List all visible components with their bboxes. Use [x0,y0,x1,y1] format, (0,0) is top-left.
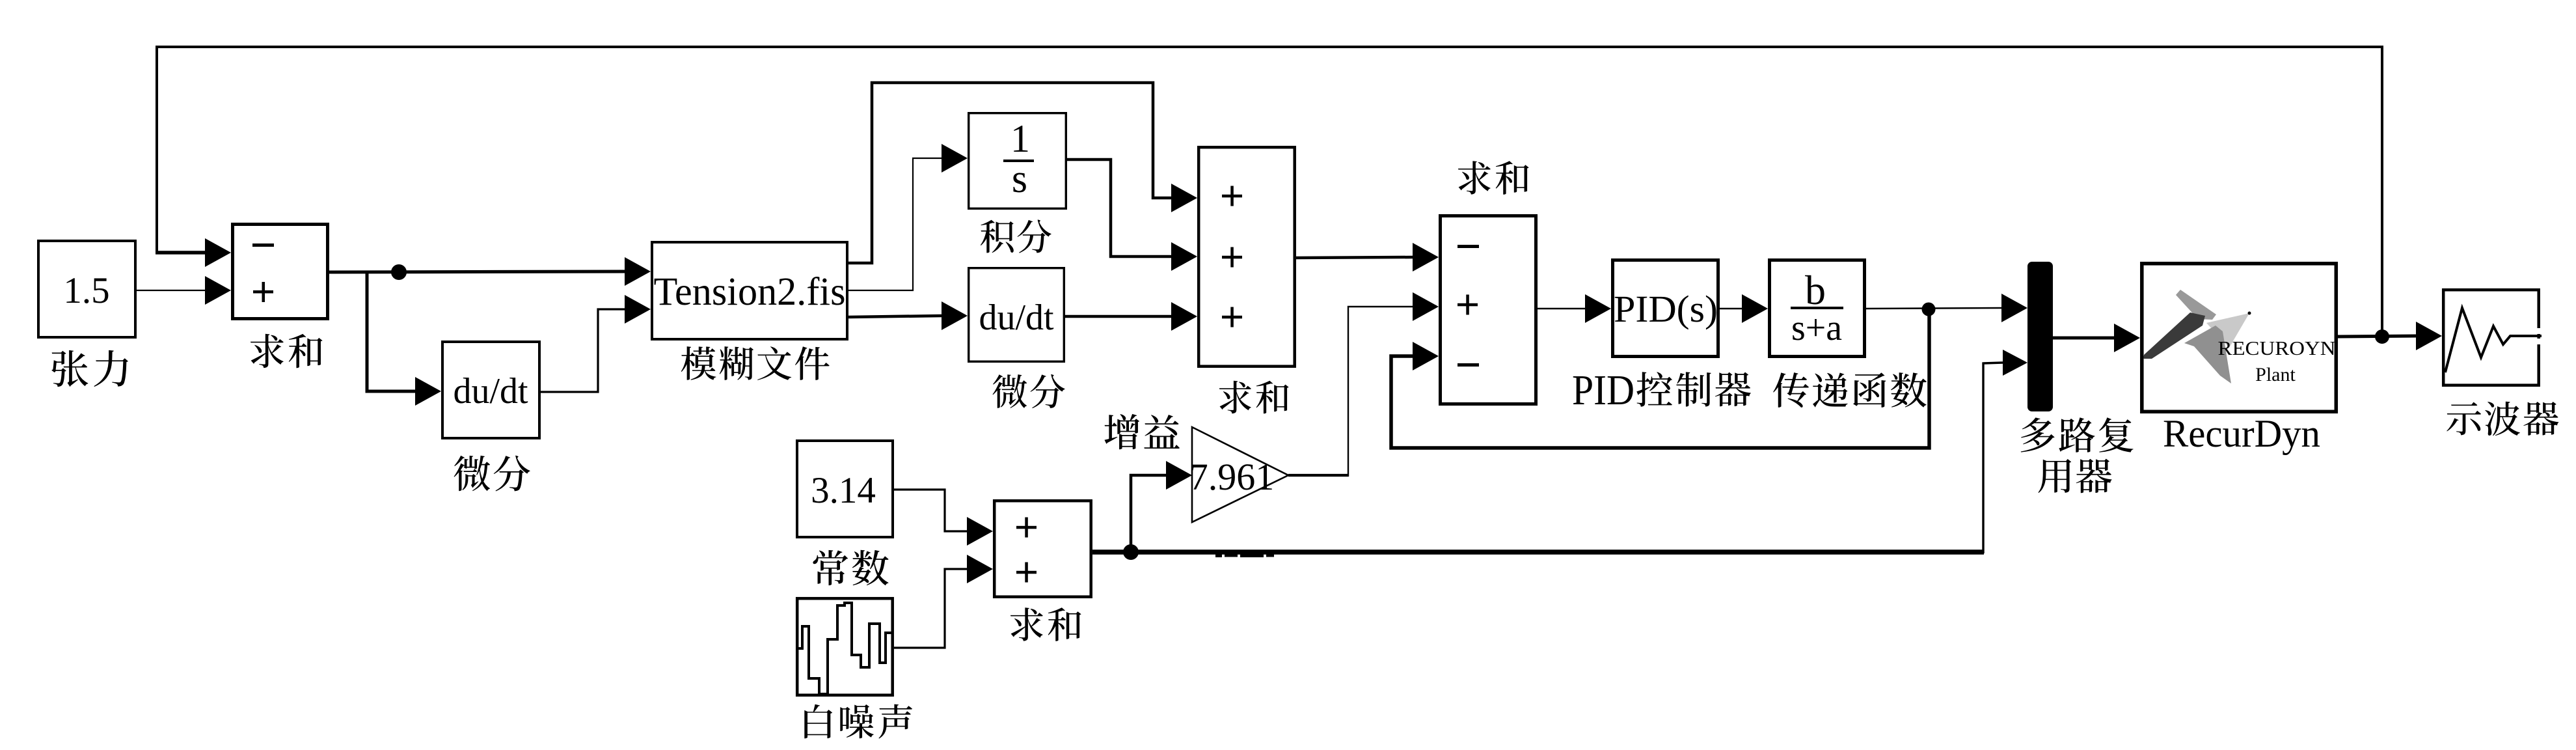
wire feedback from transfer-function output to sum3 minus input [1391,309,1929,448]
block gain 7.961 (triangle) [1192,427,1288,522]
wire mux output to RecurDyn plant [2053,337,2114,340]
svg-text:s+a: s+a [1791,308,1842,348]
wire gain output up to sum3 plus input [1348,307,1413,477]
wire Tension2.fis output to integrator 1/s [848,158,942,290]
sum4 plus signs [1016,518,1037,538]
sum1 minus sign [252,243,274,247]
svg-text:7.961: 7.961 [1189,456,1275,498]
block RecurDyn plant [2142,264,2337,412]
svg-text:PID: PID [1572,367,1634,414]
block sum2 (+++) [1199,147,1295,367]
label Qiu He (sum) under sum2 [1219,381,1289,414]
svg-text:1: 1 [1010,117,1030,160]
block sum3 (-+-) [1441,216,1536,404]
svg-text:du/dt: du/dt [453,371,528,411]
junction sum4 output [1123,544,1139,560]
sum3 minus sign bottom [1457,363,1479,367]
block mux (multiplexer bar) [2027,262,2053,411]
svg-text:RECUROYN: RECUROYN [2218,337,2336,359]
block PID controller [1613,260,1718,357]
sum1 plus sign [253,282,273,302]
fraction bar b/(s+a) [1791,307,1843,309]
label Zhang Li (tension) [51,350,128,387]
wire transfer function output to mux input1 [1866,308,2001,309]
white noise waveform [797,603,892,694]
wire gain 7.961 output (horizontal) [1288,474,1348,477]
junction transfer function output [1922,303,1936,316]
wire feedback top rail from output junction [157,47,2382,336]
block integrator 1/s [969,113,1066,209]
wire sum2 output to sum3 minus input [1296,257,1413,258]
sum2 plus signs [1222,186,1242,206]
wire sum3 output to PID(s) [1538,308,1585,309]
wire du/dt2 output to sum2 input3 [1065,315,1171,318]
block scope (oscilloscope) [2443,290,2539,385]
svg-text:s: s [1012,157,1027,201]
label Shi Bo Qi (oscilloscope) [2447,402,2558,436]
wire sum1 output to Tension2.fis input1 [329,271,625,272]
label Qiu He (sum) above sum3 [1458,161,1529,195]
label Yong Qi (mux line2) [2038,459,2111,493]
wire top rail into sum1 minus input [156,251,205,254]
sum3 plus sign [1457,295,1478,315]
svg-text:Tension2.fis: Tension2.fis [654,270,846,314]
block fuzzy controller Tension2.fis [652,242,847,339]
label Kong Zhi Qi (controller) [1636,372,1751,406]
label Ji Fen (integral) [981,219,1051,253]
wire white noise to sum4 input2 [894,569,967,648]
svg-text:3.14: 3.14 [811,470,876,511]
label Wei Fen (derivative) 2 [992,374,1064,408]
wire branch sum1 output to du/dt1 [367,272,415,391]
label Zeng Yi (gain) [1104,414,1179,449]
svg-text:du/dt: du/dt [979,298,1054,338]
label Mo Hu Wen Jian (fuzzy file) [681,346,830,380]
block band-limited white noise [797,598,893,695]
label Wei Fen (derivative) 1 [454,456,530,492]
wire sum4 output junction up to gain input [1131,475,1166,552]
wire Tension2.fis output to sum2 input1 via top rail [848,83,1171,263]
wire sum4 output long horizontal [1092,549,1984,555]
svg-text:PID(s): PID(s) [1614,288,1718,330]
label Qiu He (sum) under sum1 [251,334,323,368]
junction sum1 output [391,264,407,280]
block transfer function b/(s+a) [1770,260,1865,357]
wire RecurDyn output to scope [2338,336,2416,337]
junction RecurDyn output [2375,329,2389,344]
label Chuan Di Han Shu (transfer function) [1773,372,1927,408]
wire PID(s) output to transfer function [1720,308,1742,309]
wire constant 3.14 to sum4 input1 [894,490,967,531]
label Bai Zao Sheng (white noise) [804,704,912,739]
wire du/dt1 output to Tension2.fis input2 [541,309,625,392]
scope right border notch [2536,328,2542,334]
wire 1/s output to sum2 input2 [1067,160,1171,257]
label Duo Lu Fu (mux line1) [2021,417,2134,452]
block derivative du/dt 1 [442,342,539,438]
label Qiu He (sum) under sum4 [1010,607,1081,641]
wire up to mux input2 [1983,363,2003,553]
block derivative du/dt 2 [969,268,1064,362]
RecurDyn logo pinwheel [2143,290,2251,383]
svg-text:RecurDyn: RecurDyn [2163,412,2320,455]
wire Tension2.fis output to du/dt2 [848,316,942,317]
svg-text:1.5: 1.5 [63,270,109,311]
scope waveform [2445,308,2542,372]
remnant marks of overwritten label under wire [1215,554,1274,557]
fraction bar 1/s [1003,160,1034,162]
sum3 minus sign top [1457,245,1479,248]
block sum4 (++) [994,501,1091,597]
wire 1.5 to sum1 plus input [137,290,205,291]
block constant 3.14 [797,441,893,537]
block sum1 (-+) [233,225,328,319]
svg-text:b: b [1805,267,1826,313]
block constant 1.5 (Zhang Li source) [38,241,135,337]
svg-text:Plant: Plant [2255,364,2296,385]
label Chang Shu (constant) [813,550,888,585]
